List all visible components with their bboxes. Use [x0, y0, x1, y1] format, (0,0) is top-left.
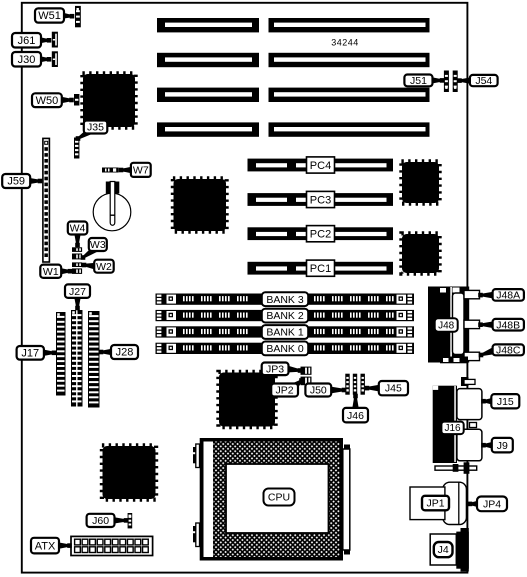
jumper JP2	[301, 377, 312, 386]
label J4	[434, 542, 453, 557]
label PC2	[307, 226, 335, 242]
label BANK 2	[262, 309, 308, 323]
svg-text:PC1: PC1	[310, 263, 331, 275]
label J30	[38, 56, 49, 63]
label W7	[121, 167, 133, 174]
J48 port tab B	[464, 320, 480, 328]
svg-text:J30: J30	[18, 54, 36, 66]
ISA slot row 2 left bar	[157, 53, 259, 67]
PCI slot PC1	[248, 262, 394, 275]
label J50	[330, 387, 344, 394]
label J28	[101, 349, 113, 356]
connector J27	[71, 310, 83, 407]
chip U-right1	[401, 161, 439, 203]
label JP4	[470, 500, 479, 507]
svg-text:PC2: PC2	[310, 229, 331, 241]
ISA slot row 1 right bar	[269, 18, 430, 32]
jumper W3	[72, 254, 82, 260]
jumper block J51/J54	[444, 71, 449, 93]
label J59	[27, 178, 40, 185]
connector J17	[56, 312, 66, 396]
memory socket BANK 3	[156, 294, 415, 305]
label J48A	[481, 292, 495, 299]
jumper J30	[52, 51, 58, 67]
label W3	[82, 246, 97, 258]
PCI slot PC2	[248, 227, 394, 240]
label BANK 1	[262, 325, 308, 339]
jumper W7	[102, 168, 119, 173]
jumper W2	[72, 262, 82, 267]
pin strips J50/J45/J46	[345, 374, 349, 395]
svg-text:W2: W2	[96, 261, 112, 273]
chip U-center	[173, 178, 227, 231]
label J48B	[481, 321, 495, 328]
connector J59	[43, 138, 50, 262]
label J48	[435, 318, 458, 332]
svg-text:JP4: JP4	[483, 499, 501, 511]
jumper JP3	[301, 367, 312, 375]
svg-text:J28: J28	[116, 347, 134, 359]
jumper W50	[74, 94, 79, 106]
svg-text:J50: J50	[310, 385, 327, 397]
chip U-bottomleft	[102, 445, 156, 499]
svg-text:J45: J45	[385, 383, 402, 395]
label JP3	[287, 366, 301, 373]
label BANK 0	[262, 342, 308, 356]
jumper W51	[75, 6, 81, 27]
bracket below J16	[435, 466, 477, 470]
svg-text:J61: J61	[18, 35, 36, 47]
svg-text:J51: J51	[410, 75, 427, 87]
svg-text:PC4: PC4	[310, 160, 331, 172]
jumper W1	[72, 268, 82, 274]
label J46	[352, 396, 359, 410]
svg-text:J54: J54	[475, 75, 492, 87]
CPU inner plate	[226, 464, 329, 533]
label J61	[38, 37, 49, 44]
label J60	[112, 517, 126, 524]
port J15	[457, 389, 482, 420]
label PC3	[307, 191, 335, 207]
PCI slot PC3	[248, 193, 394, 206]
svg-text:W51: W51	[38, 10, 61, 22]
svg-text:W3: W3	[90, 239, 106, 251]
svg-text:JP1: JP1	[426, 498, 444, 510]
jumper J60	[128, 513, 133, 528]
memory socket BANK 0	[156, 343, 415, 354]
CPU left tab upper	[193, 447, 199, 452]
ISA slot row 1 left bar	[157, 18, 259, 32]
jumper J35	[74, 138, 79, 159]
connector J28	[88, 311, 100, 408]
connector ATX	[71, 536, 153, 555]
svg-text:JP3: JP3	[266, 363, 284, 375]
label JP2	[293, 380, 303, 389]
bracket below J48	[440, 357, 468, 364]
svg-text:J15: J15	[497, 396, 514, 408]
ISA slot row 3 left bar	[157, 88, 259, 102]
battery	[93, 193, 131, 231]
svg-text:J48A: J48A	[496, 290, 520, 302]
svg-text:BANK 1: BANK 1	[266, 327, 304, 339]
label PC1	[307, 260, 335, 276]
svg-text:BANK 3: BANK 3	[266, 294, 304, 306]
tab between J15 and J9	[470, 423, 477, 428]
connector JP1	[443, 482, 467, 524]
svg-text:J48C: J48C	[496, 345, 521, 357]
svg-text:J9: J9	[497, 440, 508, 452]
svg-text:JP2: JP2	[276, 385, 294, 397]
jumper W4	[72, 247, 82, 252]
J48 port tab A	[464, 290, 480, 298]
svg-text:PC3: PC3	[310, 194, 331, 206]
chip U-W50area	[82, 73, 135, 127]
label J15	[484, 398, 494, 405]
svg-text:J17: J17	[21, 348, 39, 360]
svg-text:W7: W7	[133, 164, 149, 176]
svg-text:W50: W50	[36, 95, 59, 107]
connector J16 block	[433, 386, 457, 463]
svg-text:J60: J60	[92, 515, 109, 527]
label BANK 3	[262, 292, 308, 306]
label J35	[77, 128, 92, 140]
CPU left tab lower	[193, 526, 199, 531]
svg-text:J48: J48	[438, 320, 455, 331]
label J17	[42, 349, 54, 356]
J48 port tab C	[464, 352, 480, 360]
label PC4	[307, 157, 335, 173]
CPU socket	[200, 438, 343, 561]
port J9	[457, 429, 482, 461]
ISA slot row 4 right bar	[269, 122, 430, 136]
label J9	[484, 442, 494, 449]
svg-text:J46: J46	[347, 410, 364, 422]
svg-text:J48B: J48B	[496, 319, 520, 331]
memory socket BANK 1	[156, 326, 415, 337]
ISA slot row 3 right bar	[269, 88, 430, 102]
jumper J61	[52, 32, 58, 48]
memory socket BANK 2	[156, 310, 415, 321]
small connector above J16	[461, 377, 469, 386]
label J27	[74, 296, 81, 308]
label W2	[84, 263, 96, 270]
label CPU	[264, 489, 295, 506]
svg-text:J59: J59	[7, 176, 25, 188]
label JP1	[422, 496, 449, 511]
PCI slot PC4	[248, 159, 394, 172]
svg-text:J4: J4	[438, 544, 449, 556]
label W4	[74, 232, 81, 245]
connector J48	[428, 287, 469, 363]
svg-text:J35: J35	[87, 122, 104, 134]
svg-text:34244: 34244	[331, 38, 359, 48]
svg-text:J27: J27	[69, 286, 86, 298]
label J51	[430, 77, 442, 84]
label W50	[60, 97, 72, 104]
label W51	[60, 12, 72, 19]
svg-text:W1: W1	[43, 266, 59, 278]
svg-text:BANK 2: BANK 2	[266, 310, 304, 322]
chip U-right2	[401, 233, 439, 273]
svg-text:W4: W4	[70, 223, 86, 235]
ISA slot row 4 left bar	[157, 122, 259, 136]
connector J4	[461, 528, 469, 572]
label J45	[367, 385, 380, 392]
label J48C	[481, 348, 495, 356]
label J54	[460, 77, 473, 84]
svg-text:J16: J16	[444, 423, 461, 434]
label J16	[441, 422, 463, 435]
svg-text:BANK 0: BANK 0	[266, 343, 304, 355]
CPU right bar	[344, 445, 350, 451]
chip U-JP2area	[218, 372, 275, 427]
svg-text:ATX: ATX	[35, 540, 56, 552]
ISA slot row 2 right bar	[269, 53, 430, 67]
label ATX	[57, 542, 70, 549]
svg-text:CPU: CPU	[268, 492, 290, 504]
label W1	[59, 268, 70, 275]
